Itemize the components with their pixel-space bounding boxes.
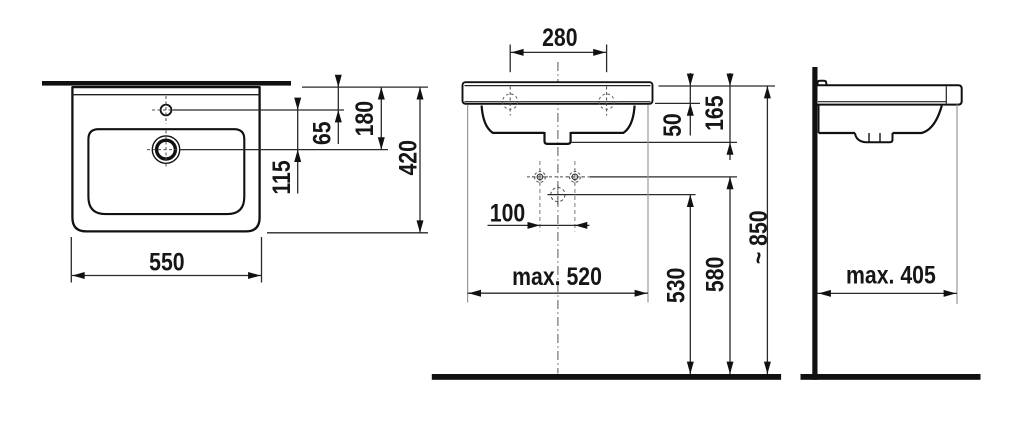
dimension max520 extension right <box>647 105 649 303</box>
drain outer circle (top view) <box>152 136 179 163</box>
svg-text:50: 50 <box>658 113 686 137</box>
bowl outline right (front view) <box>571 106 635 133</box>
dimension max520 arrow right <box>635 290 647 297</box>
dimension max405 arrow left <box>819 290 831 297</box>
dimension 420 line <box>419 87 421 233</box>
svg-text:280: 280 <box>542 23 577 51</box>
drain inner circle (top view) <box>157 140 176 159</box>
dimension 165 arrow lower <box>727 142 734 154</box>
basin rim outline (front view) <box>463 82 653 104</box>
dimension 420 arrow upper <box>417 87 424 99</box>
svg-text:65: 65 <box>308 121 336 145</box>
dimension 280 extension right <box>606 45 608 73</box>
dimension 100 line <box>488 224 590 226</box>
dimension 530 arrow lower <box>687 362 694 374</box>
dimension 180 arrow lower <box>378 137 385 149</box>
basin outer rim (top view) <box>72 87 259 231</box>
dimension max520 extension left <box>467 105 469 303</box>
svg-text:420: 420 <box>394 140 422 175</box>
back rim lip (side view) <box>818 81 827 85</box>
extension line rim bottom right <box>655 102 700 104</box>
leader line from tap hole <box>173 109 345 111</box>
dimension 65 line <box>337 77 339 145</box>
dimension 550 arrow right <box>248 272 260 279</box>
rim bottom inner line <box>465 101 651 103</box>
dimension 420 arrow lower <box>417 220 424 232</box>
svg-text:max. 405: max. 405 <box>846 261 936 289</box>
rim bottom inner line (side view) <box>818 101 946 103</box>
dimension 165 arrow upper <box>727 74 734 86</box>
wall line (top view) <box>42 81 291 86</box>
dimension 580 arrow lower <box>727 362 734 374</box>
dimension 550 extension left <box>70 237 72 283</box>
dimension 100 extension left <box>539 161 541 232</box>
floor line (front view) <box>432 374 781 380</box>
rim band (side view) <box>818 85 962 104</box>
dimension 550 line <box>71 275 261 277</box>
dimension 180 line <box>380 87 382 150</box>
tap hole left dashed (front view) <box>503 94 518 109</box>
fixing hole right (front view) <box>570 172 581 183</box>
dimension max405 line <box>818 292 958 294</box>
siphon vertical crosshair <box>557 185 559 206</box>
svg-text:550: 550 <box>149 248 184 276</box>
basin back face (side view) <box>818 105 820 133</box>
extension line bottom edge <box>267 232 428 234</box>
leader line from siphon <box>548 194 696 196</box>
dimension 530 arrow upper <box>687 195 694 207</box>
rim top inner line <box>465 85 651 87</box>
siphon dome and drain flange (side view) <box>855 133 893 142</box>
basin back rim edge line <box>72 94 261 96</box>
wall line (side view) <box>812 67 817 380</box>
drain flange (front view) <box>545 132 571 144</box>
dimension 115 arrow upper <box>294 98 301 110</box>
basin inner bowl (top view) <box>88 129 244 214</box>
svg-text:~ 850: ~ 850 <box>744 210 772 264</box>
svg-text:580: 580 <box>701 257 729 292</box>
svg-text:115: 115 <box>267 160 295 194</box>
dimension 850 arrow lower <box>764 362 771 374</box>
svg-text:530: 530 <box>662 268 690 303</box>
extension line rim top right <box>659 85 776 87</box>
rim front inner vertical line <box>945 86 947 103</box>
dimension 65 arrow lower <box>335 110 342 122</box>
dimension 50 arrow lower <box>687 103 694 115</box>
dimension 850 line <box>766 86 768 377</box>
tap hole right dashed (front view) <box>599 94 614 109</box>
dimension 115 line <box>297 98 299 194</box>
dimension 530 line <box>689 195 691 377</box>
siphon hole dashed (front view) <box>551 188 565 202</box>
dimension 100 arrow left <box>528 222 540 229</box>
dimension 100 extension right <box>574 161 576 232</box>
tap hole left crosshair <box>497 87 525 116</box>
flange inner vertical 2 <box>879 133 881 142</box>
dimension 100 arrow right <box>575 222 587 229</box>
leader line from drain flange <box>571 141 737 143</box>
dimension 550 extension right <box>261 237 263 283</box>
basin underside front (side view) <box>893 106 942 133</box>
fixing holes dashed axis <box>527 176 590 178</box>
dimension 115 arrow lower <box>294 150 301 162</box>
dimension 165 line <box>729 73 731 160</box>
floor line (side view) <box>801 374 981 380</box>
tap hole crosshair <box>152 96 180 124</box>
svg-text:100: 100 <box>490 199 525 227</box>
dimension 280 line <box>510 51 606 53</box>
dimension max520 line <box>468 292 648 294</box>
leader line from fixing holes <box>590 176 737 178</box>
svg-text:max. 520: max. 520 <box>512 262 602 290</box>
extension line top edge <box>302 86 428 88</box>
tap hole (top view) <box>161 105 172 116</box>
leader line from drain <box>181 149 389 151</box>
basin underside (side view) <box>819 132 855 134</box>
drain crosshair <box>147 131 185 170</box>
dimension max405 arrow right <box>944 290 956 297</box>
dimension max520 arrow left <box>469 290 481 297</box>
dimension 850 arrow upper <box>764 86 771 98</box>
dimension 280 arrow right <box>593 49 605 56</box>
flange inner vertical 1 <box>868 133 870 142</box>
bowl outline left (front view) <box>482 106 545 133</box>
dimension 65 arrow upper <box>335 75 342 87</box>
dimension 50 arrow upper <box>687 74 694 86</box>
dimension 580 arrow upper <box>727 177 734 189</box>
svg-text:165: 165 <box>701 95 729 131</box>
dimension 280 arrow left <box>511 49 523 56</box>
dimension 550 arrow left <box>72 272 84 279</box>
fixing hole left (front view) <box>535 172 546 183</box>
dimension 280 extension left <box>509 45 511 73</box>
svg-text:180: 180 <box>350 101 378 136</box>
dimension 180 arrow upper <box>378 87 385 99</box>
dimension max405 extension right <box>956 105 958 305</box>
centerline (front view) <box>557 62 559 374</box>
dimension 580 line <box>729 177 731 377</box>
dimension 50 line <box>689 73 691 136</box>
tap hole right crosshair <box>593 87 621 116</box>
